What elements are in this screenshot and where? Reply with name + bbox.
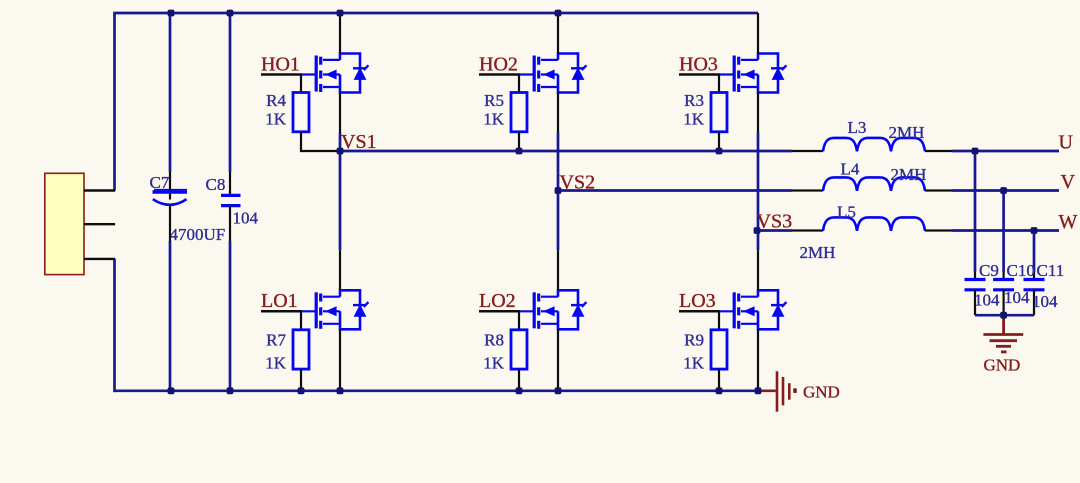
inductor L3 — [823, 138, 925, 151]
svg-text:LO2: LO2 — [479, 290, 516, 312]
wire R4 bottom to VS1 — [301, 132, 340, 151]
pin L3 left — [792, 150, 823, 152]
svg-text:W: W — [1059, 211, 1078, 233]
wire VS node to Q5 drain — [557, 191, 560, 251]
svg-text:104: 104 — [1032, 292, 1058, 311]
svg-text:2MH: 2MH — [889, 123, 925, 142]
svg-text:V: V — [1061, 171, 1076, 193]
svg-text:1K: 1K — [265, 353, 287, 372]
pin Q3 source — [757, 93, 759, 133]
connector pin 3 — [84, 258, 115, 260]
svg-text:VS3: VS3 — [757, 210, 793, 232]
pin Q2 source — [557, 93, 559, 133]
pin C8 top — [229, 172, 231, 195]
pin C8 bottom — [229, 206, 231, 241]
pin R5 bottom — [518, 132, 520, 151]
svg-text:HO3: HO3 — [679, 53, 718, 75]
capacitor C9 — [965, 280, 986, 290]
pin R3 bottom — [718, 132, 720, 151]
svg-text:1K: 1K — [483, 353, 505, 372]
svg-text:104: 104 — [974, 291, 1000, 310]
pin R8 top — [518, 311, 520, 330]
resistor R4 — [293, 93, 309, 132]
pin L5 left — [792, 229, 823, 231]
resistor R7 — [293, 330, 309, 369]
svg-text:GND: GND — [984, 356, 1021, 375]
resistor R8 — [511, 330, 527, 369]
pin C7 bottom — [169, 205, 171, 242]
wire LO1 gate net — [261, 310, 302, 313]
pin L4 left — [792, 189, 823, 191]
svg-text:104: 104 — [1004, 288, 1030, 307]
capacitor C8 — [221, 195, 241, 205]
pin Q1 drain — [339, 13, 341, 54]
pin R5 top — [518, 75, 520, 93]
pin R7 bottom — [300, 369, 302, 391]
wire capacitor bottoms join — [975, 314, 1034, 317]
wire VS3 net — [757, 229, 792, 232]
svg-text:C9: C9 — [979, 261, 999, 280]
svg-text:R9: R9 — [684, 330, 704, 349]
svg-text:C10: C10 — [1007, 261, 1035, 280]
ground earth symbol — [983, 315, 1023, 352]
svg-text:4700UF: 4700UF — [170, 225, 226, 244]
svg-text:R7: R7 — [266, 330, 286, 349]
inductor L5 — [823, 217, 925, 230]
svg-text:R3: R3 — [684, 91, 704, 110]
svg-text:C8: C8 — [206, 175, 226, 194]
pin C7 top — [169, 172, 171, 192]
svg-text:R5: R5 — [484, 91, 504, 110]
svg-text:L3: L3 — [848, 118, 867, 137]
pin R3 top — [718, 75, 720, 93]
wire C11 upper lead — [1033, 231, 1036, 273]
svg-text:1K: 1K — [483, 110, 505, 129]
pin Q1 source — [339, 93, 341, 133]
svg-text:LO1: LO1 — [261, 290, 298, 312]
wire L5 to W — [952, 229, 1059, 232]
connector J1 — [45, 173, 84, 274]
svg-text:2MH: 2MH — [891, 165, 927, 184]
pin Q3 gate — [719, 73, 735, 75]
svg-text:VS1: VS1 — [341, 131, 377, 153]
resistor R9 — [711, 330, 727, 369]
wire VS node to Q4 drain — [339, 151, 342, 250]
svg-text:1K: 1K — [265, 110, 287, 129]
wire HO1 gate net — [261, 73, 302, 76]
transistor Q2 (HO2 N-MOSFET with body diode) — [534, 54, 586, 93]
pin R4 top — [300, 75, 302, 93]
capacitor C10 — [993, 280, 1014, 290]
pin Q5 drain — [557, 250, 559, 290]
ground power symbol — [758, 371, 795, 411]
pin Q6 gate — [719, 310, 735, 312]
svg-text:U: U — [1059, 131, 1074, 153]
pin Q2 drain — [557, 13, 559, 54]
svg-text:104: 104 — [233, 209, 259, 228]
wire Q1 source to VS node — [339, 133, 342, 152]
transistor Q5 (LO2 N-MOSFET with body diode) — [534, 290, 586, 329]
capacitor C7 — [153, 190, 188, 205]
transistor Q6 (LO3 N-MOSFET with body diode) — [734, 290, 786, 329]
wire L4 to V — [952, 189, 1059, 192]
svg-text:R8: R8 — [484, 330, 504, 349]
pin Q3 drain — [757, 13, 759, 54]
inductor L4 — [823, 177, 925, 190]
wire top power rail — [115, 12, 759, 15]
wire HO3 gate net — [679, 73, 720, 76]
pin Q1 gate — [301, 73, 317, 75]
svg-text:L5: L5 — [837, 203, 856, 222]
pin L5 right — [925, 229, 952, 231]
wire Q3 source to VS node — [757, 133, 760, 231]
wire C8 lower lead — [229, 241, 232, 391]
pin C9 bottom — [974, 290, 976, 315]
pin C9 top — [974, 272, 976, 280]
resistor R5 — [511, 93, 527, 132]
wire HO2 gate net — [479, 73, 520, 76]
wire VS2 net — [558, 189, 792, 192]
svg-text:1K: 1K — [683, 110, 705, 129]
wire C10 upper lead — [1002, 191, 1005, 273]
wire bottom power rail — [115, 389, 759, 392]
resistor R3 — [711, 93, 727, 132]
wire C7 upper lead — [169, 13, 172, 172]
wire Q2 source to VS node — [557, 133, 560, 191]
pin R8 bottom — [518, 369, 520, 391]
connector pin 2 — [84, 223, 115, 225]
pin C10 top — [1002, 272, 1004, 280]
wire LO3 gate net — [679, 310, 720, 313]
pin Q4 gate — [301, 310, 317, 312]
svg-text:HO1: HO1 — [261, 53, 300, 75]
svg-text:1K: 1K — [683, 353, 705, 372]
svg-text:GND: GND — [803, 383, 840, 402]
transistor Q4 (LO1 N-MOSFET with body diode) — [316, 290, 368, 329]
pin R9 top — [718, 311, 720, 330]
svg-text:C7: C7 — [150, 173, 170, 192]
pin Q6 drain — [757, 250, 759, 290]
svg-text:LO3: LO3 — [679, 290, 716, 312]
pin C11 top — [1033, 272, 1035, 280]
capacitor C11 — [1024, 280, 1045, 290]
pin R9 bottom — [718, 369, 720, 391]
pin C11 bottom — [1033, 290, 1035, 315]
svg-text:2MH: 2MH — [800, 243, 836, 262]
connector pin 1 — [84, 189, 115, 191]
wire left vertical lower (connector pin3 to bottom rail) — [113, 259, 116, 392]
wire left vertical upper (connector pin1 to top rail) — [113, 12, 116, 191]
pin Q5 gate — [519, 310, 535, 312]
pin Q4 drain — [339, 250, 341, 290]
svg-text:R4: R4 — [266, 91, 286, 110]
pin L4 right — [925, 189, 952, 191]
pin Q4 source — [339, 329, 341, 391]
transistor Q1 (HO1 N-MOSFET with body diode) — [316, 54, 368, 93]
svg-text:HO2: HO2 — [479, 53, 518, 75]
wire LO2 gate net — [479, 310, 520, 313]
wire C8 upper lead — [229, 13, 232, 172]
svg-text:VS2: VS2 — [560, 172, 596, 194]
pin Q6 source — [757, 329, 759, 391]
pin Q5 source — [557, 329, 559, 391]
pin C10 bottom — [1002, 290, 1004, 315]
transistor Q3 (HO3 N-MOSFET with body diode) — [734, 54, 786, 93]
wire VS node to Q6 drain — [757, 231, 760, 251]
svg-text:C11: C11 — [1037, 261, 1065, 280]
pin R7 top — [300, 311, 302, 330]
svg-text:L4: L4 — [841, 160, 860, 179]
wire VS1 net — [340, 150, 792, 153]
pin Q2 gate — [519, 73, 535, 75]
pin L3 right — [925, 150, 952, 152]
wire C7 lower lead — [169, 241, 172, 391]
wire L3 to U — [952, 150, 1059, 153]
wire C9 upper lead — [974, 151, 977, 272]
